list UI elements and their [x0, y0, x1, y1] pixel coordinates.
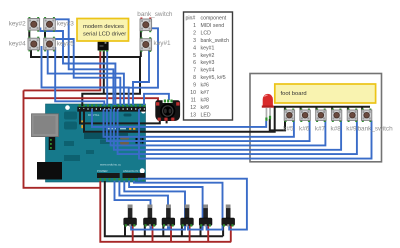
svg-text:www.arduino.cc: www.arduino.cc — [100, 163, 122, 167]
wire key#1 signal — [133, 47, 149, 105]
svg-text:3: 3 — [193, 38, 196, 44]
svg-text:k#9: k#9 — [201, 105, 209, 111]
pushbutton k#7 — [316, 109, 326, 123]
pin table box — [184, 12, 233, 120]
svg-text:serial LCD driver: serial LCD driver — [83, 32, 126, 38]
wire pot 6 power leg — [230, 225, 232, 242]
pushbutton k#8 — [331, 109, 341, 123]
svg-text:component: component — [201, 16, 227, 22]
wire foot button 5 ground stub — [347, 107, 349, 111]
svg-text:key#1: key#1 — [154, 40, 171, 47]
svg-text:bank_switch: bank_switch — [201, 38, 230, 44]
svg-text:11: 11 — [191, 98, 196, 104]
pushbutton k#9 — [347, 109, 357, 123]
svg-text:6: 6 — [193, 60, 196, 66]
power/analog headers — [97, 173, 120, 178]
svg-text:bank_switch: bank_switch — [137, 11, 173, 18]
svg-text:key#4: key#4 — [201, 68, 215, 74]
svg-text:1: 1 — [193, 23, 196, 29]
wire key#3 signal — [54, 19, 113, 105]
wire power rail left — [24, 90, 101, 187]
svg-text:ANALOG IN: ANALOG IN — [123, 169, 138, 173]
svg-text:2: 2 — [193, 31, 196, 37]
wire foot button 1 ground stub — [284, 107, 286, 111]
svg-text:key#5, k#5: key#5, k#5 — [201, 75, 226, 81]
pushbutton k#6 — [300, 109, 310, 123]
wire bank_switch/key#1 ground link — [140, 29, 142, 58]
USB connector — [32, 114, 59, 137]
wire key#3-key#5 ground link — [44, 29, 46, 40]
svg-text:LCD: LCD — [201, 31, 212, 37]
wire pot 3 signal — [124, 181, 185, 230]
wire pot 2 ground leg — [144, 225, 146, 236]
wire pot 4 ground leg — [181, 225, 183, 236]
wire pot 5 power leg — [207, 225, 209, 242]
svg-text:key#2: key#2 — [201, 53, 215, 59]
svg-text:k#7: k#7 — [201, 90, 209, 96]
wire LED signal wire — [92, 109, 266, 127]
svg-text:k#6: k#6 — [299, 125, 310, 132]
wire foot button 2 ground stub — [300, 107, 302, 111]
potentiometer P5 — [199, 205, 212, 227]
svg-text:key#4: key#4 — [9, 40, 26, 47]
svg-text:bank_switch: bank_switch — [358, 125, 394, 132]
svg-text:7: 7 — [193, 68, 196, 74]
wire pot 5 signal — [134, 181, 223, 230]
svg-text:key#2: key#2 — [9, 21, 26, 28]
digital header — [77, 107, 110, 112]
wire foot k#9 signal — [118, 109, 357, 154]
wire foot board ground bus — [84, 107, 370, 132]
potentiometer P2 — [144, 205, 157, 227]
wire pot 1 ground leg — [124, 225, 126, 236]
svg-text:13: 13 — [190, 112, 196, 118]
svg-text:key#1: key#1 — [201, 45, 215, 51]
pushbutton key#5 — [44, 37, 56, 52]
wire pot 5 ground leg — [200, 225, 202, 236]
pushbutton k#5 — [284, 109, 294, 123]
potentiometer P3 — [162, 205, 175, 227]
svg-text:4: 4 — [193, 45, 196, 51]
wire MIDI signal — [144, 94, 169, 105]
wire foot k#7 signal — [111, 109, 326, 145]
wire key#5 bottom signal — [55, 47, 104, 106]
svg-text:modern devices: modern devices — [83, 24, 124, 30]
wire keys ground bus — [31, 47, 140, 106]
svg-text:5: 5 — [193, 53, 196, 59]
wire key#5 top signal — [55, 39, 121, 105]
wire pot 3 power leg — [170, 225, 172, 242]
wire pot 5V bus — [100, 181, 231, 242]
svg-text:k#6: k#6 — [201, 83, 209, 89]
wire foot k#5 signal — [104, 109, 294, 137]
svg-text:8: 8 — [193, 75, 196, 81]
note: foot board — [275, 84, 376, 103]
note: modern devices serial LCD driver — [77, 19, 129, 42]
wire key#5 left signal — [48, 46, 124, 105]
svg-text:foot board: foot board — [281, 91, 307, 97]
svg-text:pin#: pin# — [186, 16, 196, 22]
potentiometer P1 — [124, 205, 137, 227]
wire key#2 signal — [40, 28, 115, 106]
LED (foot board) — [262, 94, 274, 121]
wire key#4 signal — [42, 46, 129, 105]
wire pot 2 signal — [119, 181, 168, 230]
wire LED cathode wire — [270, 119, 285, 130]
wire power wire to LCD driver — [24, 50, 101, 90]
svg-text:k#5: k#5 — [283, 125, 294, 132]
svg-text:k#8: k#8 — [201, 98, 209, 104]
wire pot 4 power leg — [189, 225, 191, 242]
pushbutton key#2 — [28, 17, 40, 32]
wire pot ground bus — [105, 181, 223, 236]
svg-text:k#9: k#9 — [346, 125, 357, 132]
wire foot button 3 ground stub — [315, 107, 317, 111]
wire MIDI ground stub — [166, 120, 168, 124]
svg-text:k#8: k#8 — [331, 125, 342, 132]
wire key#2-key#4 ground link — [28, 29, 30, 40]
pushbutton key#1 — [140, 37, 152, 52]
wire pot 6 signal — [139, 179, 247, 230]
pushbutton bank_switch — [140, 18, 152, 33]
wire pot 3 ground leg — [162, 225, 164, 236]
wire foot button 6 ground stub — [361, 107, 363, 111]
wire foot k#6 signal — [107, 109, 310, 141]
svg-text:key#3: key#3 — [201, 60, 215, 66]
wire pot 2 power leg — [152, 225, 154, 242]
svg-text:DIGITAL: DIGITAL — [88, 113, 100, 117]
pushbutton key#4 — [28, 37, 40, 52]
wire MIDI ground wire — [80, 109, 160, 123]
wire foot bank_switch signal — [139, 109, 372, 159]
potentiometer P4 — [181, 205, 194, 227]
foot board enclosure — [250, 74, 382, 162]
wire pot 4 signal — [129, 181, 203, 230]
wire pot 1 power leg — [132, 225, 134, 242]
svg-text:key#3: key#3 — [57, 21, 74, 28]
wire LCD driver GND wire — [103, 50, 105, 94]
svg-text:key#5: key#5 — [57, 40, 74, 47]
LCD driver chip — [98, 42, 109, 52]
svg-text:k#7: k#7 — [315, 125, 326, 132]
potentiometer P6 — [222, 205, 235, 227]
Arduino Uno board U1 — [32, 104, 146, 182]
wire LCD driver signal — [106, 50, 108, 105]
wire pot 1 signal — [115, 181, 151, 230]
wire pot 6 ground leg — [222, 225, 224, 236]
svg-text:10: 10 — [190, 90, 196, 96]
svg-text:12: 12 — [190, 105, 196, 111]
svg-text:MIDI send: MIDI send — [201, 23, 225, 29]
svg-text:9: 9 — [193, 83, 196, 89]
svg-text:POWER: POWER — [97, 169, 108, 173]
wire foot k#8 signal — [114, 109, 341, 150]
pushbutton bank_switch (foot) — [361, 109, 371, 123]
MIDI DIN connector — [155, 100, 180, 122]
pushbutton key#3 — [44, 17, 56, 32]
pin table text — [186, 16, 230, 119]
svg-text:LED: LED — [201, 112, 211, 118]
wire power wire to MIDI — [24, 98, 159, 104]
wire bank_switch signal — [129, 28, 158, 87]
DC power jack — [37, 162, 62, 180]
wire foot button 4 ground stub — [331, 107, 333, 111]
